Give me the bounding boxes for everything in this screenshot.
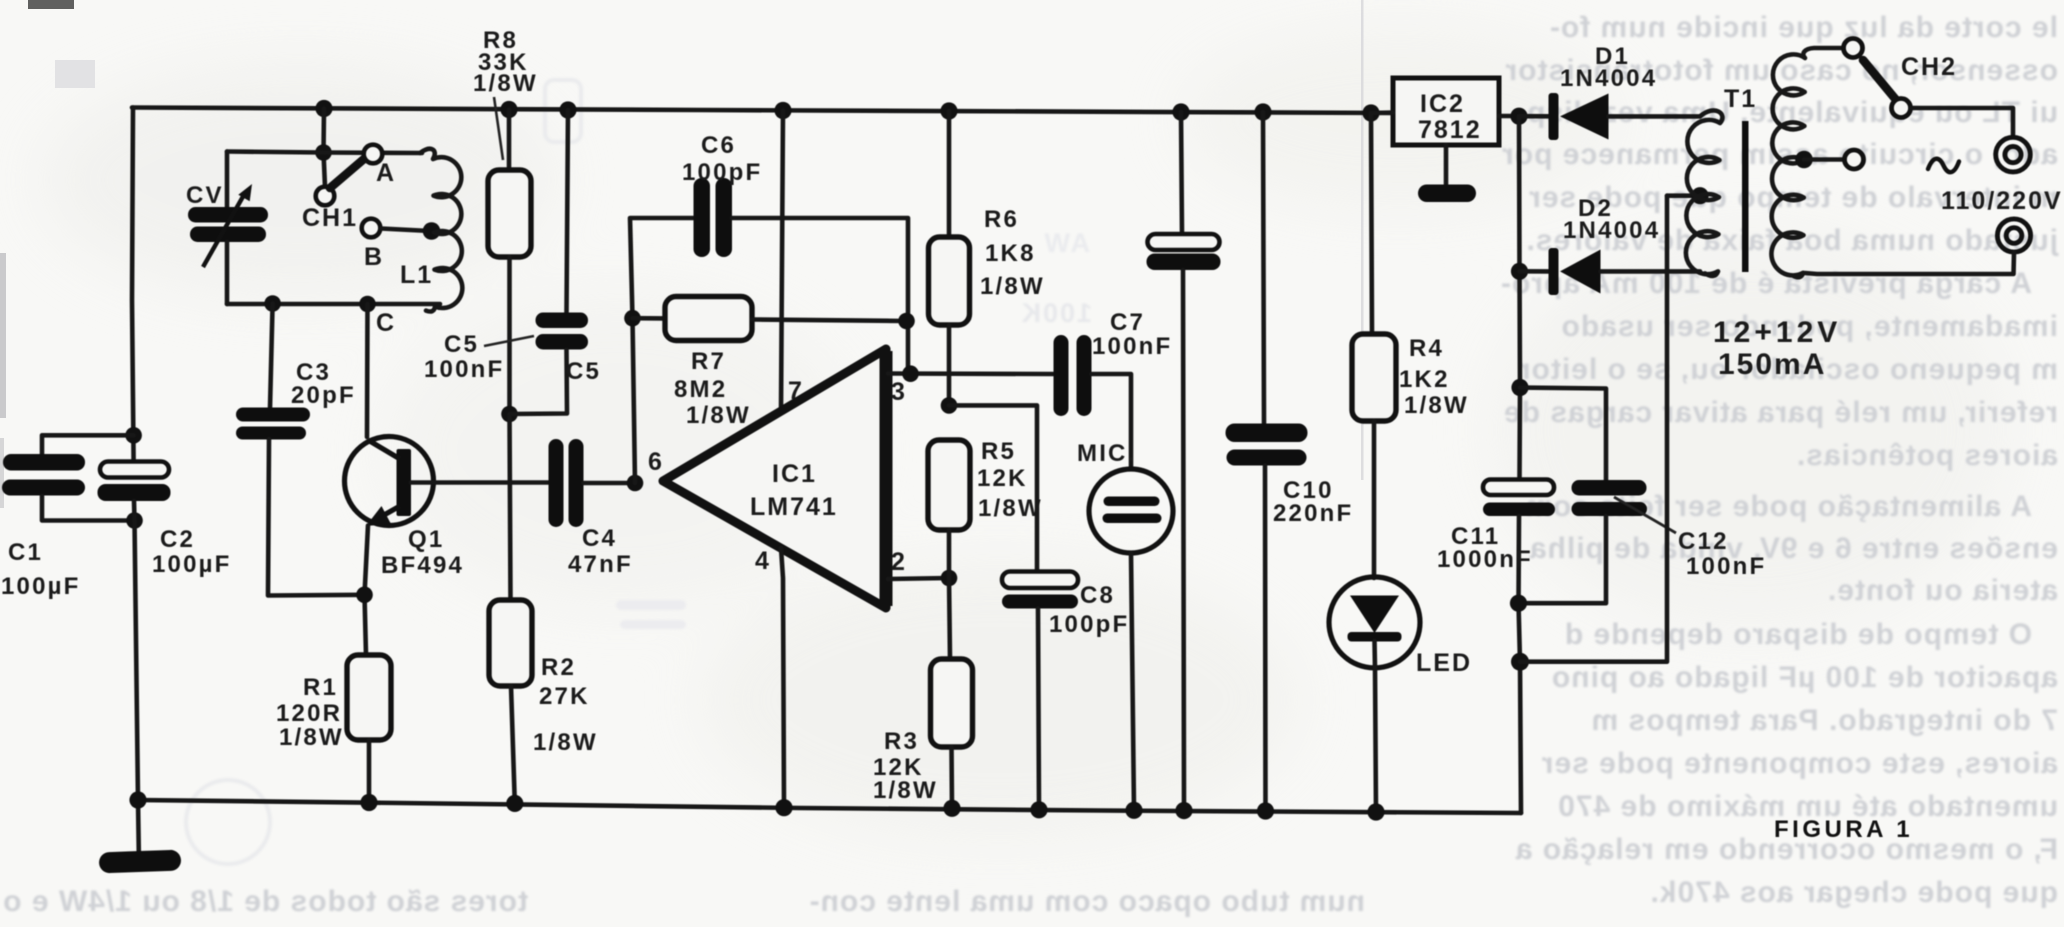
label D1 1N4004 [1560,43,1657,92]
svg-text:ateria ou fonte.: ateria ou fonte. [1827,574,2058,607]
node T1 center tap [1691,187,1708,204]
svg-text:1K8: 1K8 [985,240,1036,267]
svg-text:1N4004: 1N4004 [1560,65,1657,92]
wire bottom 0V rail [136,800,1521,813]
svg-text:ado, o circuito assim permanec: ado, o circuito assim permanece por [1501,138,2058,171]
node C1 branch junction [125,427,142,444]
resistor R6 [929,111,970,405]
label C10 220nF [1273,477,1353,527]
svg-text:1/8W: 1/8W [978,495,1043,522]
LED D3 [1329,577,1420,812]
svg-text:100nF: 100nF [1092,333,1172,360]
svg-text:120R: 120R [276,700,342,727]
node C12 bottom junction [1510,595,1527,612]
svg-text:O tempo de disparo depende d: O tempo de disparo depende d [1564,618,2032,651]
label C5 100nF leader [424,331,534,383]
node rail CH1 [315,100,332,117]
svg-text:100nF: 100nF [1686,553,1766,580]
svg-text:C6: C6 [701,132,736,159]
node tank top [315,144,332,161]
svg-text:L1: L1 [400,261,433,289]
node rectifier top [1510,108,1527,125]
capacitor C6 [694,178,733,257]
svg-text:C5: C5 [566,358,601,385]
node R7 left [624,310,641,327]
label Q1 BF494 [381,526,464,579]
svg-text:110/220V: 110/220V [1941,187,2063,215]
svg-text:1/8W: 1/8W [1404,392,1469,419]
label IC1 LM741 [750,460,838,521]
svg-text:1/8W: 1/8W [279,724,344,751]
svg-text:20pF: 20pF [291,382,356,409]
svg-text:R1: R1 [303,674,338,701]
wire tank bottom line [227,302,440,307]
node C10 bottom rail [1257,802,1274,819]
svg-text:Q1: Q1 [408,526,444,553]
svg-text:220nF: 220nF [1273,500,1353,527]
capacitor C1 [2,454,134,521]
wire C1 top lead [42,435,134,454]
microphone MIC [1089,469,1173,810]
wire primary tap [1804,157,1844,162]
wire C2 to bottom rail to ground [134,501,139,853]
capacitor C3 [236,304,365,596]
node R6 R5 junction [941,397,958,414]
regulator IC2 7812 [1393,78,1499,145]
AC symbol [1928,159,1959,172]
ground IC2 blob [1418,185,1476,203]
wire C12 top branch [1520,388,1606,481]
wire R5 to C8 [949,405,1037,572]
svg-text:T1: T1 [1724,85,1757,113]
wire pin4 ground drop [781,548,784,808]
wire Q1 emitter down [365,526,369,656]
svg-text:R7: R7 [691,348,726,375]
label R3 12K 1/8W [873,728,938,804]
label R4 1K2 1/8W [1399,335,1469,419]
transistor Q1 [345,437,434,527]
diode D1 1N4004 [1519,93,1700,140]
wire R8 junction to R2 [510,414,511,600]
svg-text:2: 2 [891,548,907,576]
node R2 bottom rail [506,795,523,812]
label C8 100pF [1049,582,1129,638]
resistor R1 [347,655,391,802]
svg-text:C: C [376,309,396,337]
svg-text:FIGURA 1: FIGURA 1 [1774,816,1913,843]
wire center tap stub [1667,193,1700,198]
svg-text:que pode chegar aos 470k.: que pode chegar aos 470k. [1650,876,2058,909]
svg-text:12+12V: 12+12V [1713,316,1841,349]
label R1 120R 1/8W [276,674,344,751]
terminal AC plug bottom [1997,219,2030,252]
svg-text:C2: C2 [160,526,195,553]
node pin4 bottom rail [775,799,792,816]
node rail R4 [1362,104,1379,121]
label C7 100nF [1092,309,1172,360]
wire left vertical (rail to C2) [132,108,134,462]
svg-text:R5: R5 [981,438,1016,465]
svg-text:C8: C8 [1080,582,1115,609]
column rule crease [1361,0,1364,480]
svg-text:apacitor de 100 µF ligado ao p: apacitor de 100 µF ligado ao pino [1551,661,2058,694]
terminal 110V tap [1845,150,1864,169]
resistor R3 [931,578,973,808]
svg-text:MIC.: MIC. [1077,440,1136,467]
svg-text:6: 6 [648,448,664,476]
svg-text:C12: C12 [1678,528,1729,555]
label R7 8M2 1/8W [674,348,751,429]
svg-text:R6: R6 [984,206,1019,233]
resistor R8 [488,110,531,415]
transformer T1 secondary [1686,110,1723,276]
svg-text:aiores potências.: aiores potências. [1796,439,2058,472]
svg-text:BF494: BF494 [381,552,464,579]
inductor L1 [420,149,462,312]
label C12 100nF leader [1614,497,1766,580]
svg-text:LED: LED [1416,649,1472,677]
capacitor CV variable [188,152,268,305]
node R3 bottom rail [943,800,960,817]
svg-text:150mA: 150mA [1718,348,1826,381]
label C1 100µF [1,539,81,600]
svg-text:1/8W: 1/8W [980,273,1045,300]
switch CH1 [316,145,383,206]
svg-text:1/8W: 1/8W [473,70,538,97]
svg-text:CH2: CH2 [1901,53,1957,81]
wire pin7 drop [781,111,783,411]
svg-text:1/8W: 1/8W [533,729,598,756]
svg-text:C7: C7 [1110,309,1145,336]
svg-text:A: A [376,159,396,187]
node rail R8 [500,101,517,118]
capacitor C2 [98,462,171,502]
svg-text:IC2: IC2 [1420,90,1465,118]
capacitor C10 [1226,112,1308,811]
node pin6 junction [627,475,644,492]
switch CH2 [1844,39,1911,118]
svg-text:CH1: CH1 [302,204,358,232]
svg-text:1/8W: 1/8W [873,777,938,804]
svg-text:R2: R2 [541,654,576,681]
svg-text:tores são todos de 1/8 ou 1/4W: tores são todos de 1/8 ou 1/4W e o [2,885,528,918]
svg-text:7812: 7812 [1418,116,1482,144]
resistor R2 [489,600,532,803]
wire IC2 output to rail [1371,110,1393,115]
svg-text:100K: 100K [1019,298,1092,328]
node C1 bottom junction [126,512,143,529]
wire feedback left vertical [630,218,694,483]
svg-text:C5: C5 [444,331,479,358]
svg-text:3: 3 [891,378,907,406]
svg-text:27K: 27K [539,683,590,710]
node R8 C5 junction [501,406,518,423]
node pin3 junction [902,365,919,382]
svg-text:R4: R4 [1409,335,1444,362]
node D2 junction [1511,263,1528,280]
wire B tap [381,229,430,232]
node LED bottom rail [1367,803,1384,820]
node center tap ground junction [1511,653,1529,671]
svg-text:1/8W: 1/8W [686,402,751,429]
svg-text:100µF: 100µF [152,551,232,578]
node rail C10 [1254,103,1271,120]
wire Q1 base line [411,480,549,485]
label C4 47nF [568,525,633,578]
capacitor C8 [1002,572,1078,810]
label C6 100pF [682,132,762,186]
diode D2 1N4004 [1520,248,1701,295]
op-amp U1 IC1 LM741 [663,349,886,608]
svg-text:le corte da luz que incide num: le corte da luz que incide num fo- [1549,11,2058,44]
wire plug bottom to primary [1805,253,2014,275]
terminal B [362,219,381,238]
label R2 27K 1/8W [533,654,598,756]
node rail R6 [940,102,957,119]
node rail C5 [559,101,576,118]
node rail C9 [1172,103,1189,120]
label D2 1N4004 [1563,195,1660,244]
node pin2 junction [941,570,958,587]
resistor R7 [633,297,907,341]
capacitor C7 [1054,335,1132,467]
resistor R5 [928,440,970,578]
svg-text:100pF: 100pF [1049,611,1129,638]
svg-text:8M2: 8M2 [674,376,727,403]
wire Q1 collector [365,304,370,437]
svg-text:CV: CV [186,182,224,209]
wire pin3 [888,371,1053,376]
node C12 top junction [1511,379,1528,396]
svg-text:C1: C1 [8,539,43,566]
edge artifacts [0,0,95,508]
wire IC2 ground pin [1444,145,1449,188]
label R5 12K 1/8W [977,438,1043,522]
node C8 bottom rail [1030,801,1047,818]
svg-text:47nF: 47nF [568,551,633,578]
node MIC bottom rail [1125,802,1142,819]
node T1 primary tap [1795,151,1813,169]
svg-text:1000nF: 1000nF [1437,546,1533,573]
svg-text:referir, um relé para ativar c: referir, um relé para ativar cargas de [1503,396,2058,429]
svg-text:4: 4 [755,547,771,575]
node R7 right [898,313,915,330]
terminal AC plug top [1996,137,2031,172]
svg-text:1K2: 1K2 [1399,366,1450,393]
transformer T1 core [1742,121,1749,272]
node tank bottom C3 [264,295,281,312]
label R6 1K8 1/8W [980,206,1045,300]
transformer T1 primary [1771,48,1844,277]
svg-text:R3: R3 [884,728,919,755]
svg-text:1N4004: 1N4004 [1563,217,1660,244]
node L1 tap [423,222,441,240]
svg-text:AW: AW [1043,228,1091,258]
capacitor C9 bypass [1147,112,1221,811]
svg-text:7 do integrado. Para tempos: 7 do integrado. Para tempos m [1591,704,2058,737]
svg-text:100µF: 100µF [1,573,81,600]
node emitter junction [356,587,373,604]
wire tank top line [227,152,422,154]
svg-text:12K: 12K [977,465,1028,492]
ground [99,850,182,874]
wire feedback right [732,218,908,374]
wire IC2 input [1499,114,1519,119]
node C collector tap [359,296,376,313]
svg-text:B: B [364,243,384,271]
wire pin2 [888,578,949,579]
capacitor C12 [1519,480,1648,603]
wire rectifier vertical [1519,116,1520,480]
wire center tap return [1520,196,1667,662]
wire CH2 to plug [1911,108,2014,136]
label C2 100µF [152,526,232,578]
svg-text:100pF: 100pF [682,159,762,186]
label C11 1000nF [1437,523,1533,573]
node R1 bottom rail [360,794,377,811]
wire CH1 drop [324,109,326,187]
node rail pin7 [774,102,791,119]
svg-text:num tubo opaco com uma lente c: num tubo opaco com uma lente con- [809,885,1365,918]
svg-text:C4: C4 [582,525,617,552]
label R8 33K 1/8W [473,27,538,160]
node C9 bottom rail [1175,802,1192,819]
label C3 20pF [291,359,356,409]
capacitor C11 [1483,480,1555,814]
svg-text:aiores, este componente pode s: aiores, este componente pode ser [1541,747,2058,780]
svg-text:LM741: LM741 [750,493,838,521]
capacitor C5 [510,110,589,414]
resistor R4 [1352,113,1396,578]
node bottom rail left [129,791,146,808]
wire top +12V rail [132,108,1393,114]
capacitor C4 [549,439,636,527]
svg-text:100nF: 100nF [424,356,504,383]
svg-text:IC1: IC1 [772,460,817,488]
